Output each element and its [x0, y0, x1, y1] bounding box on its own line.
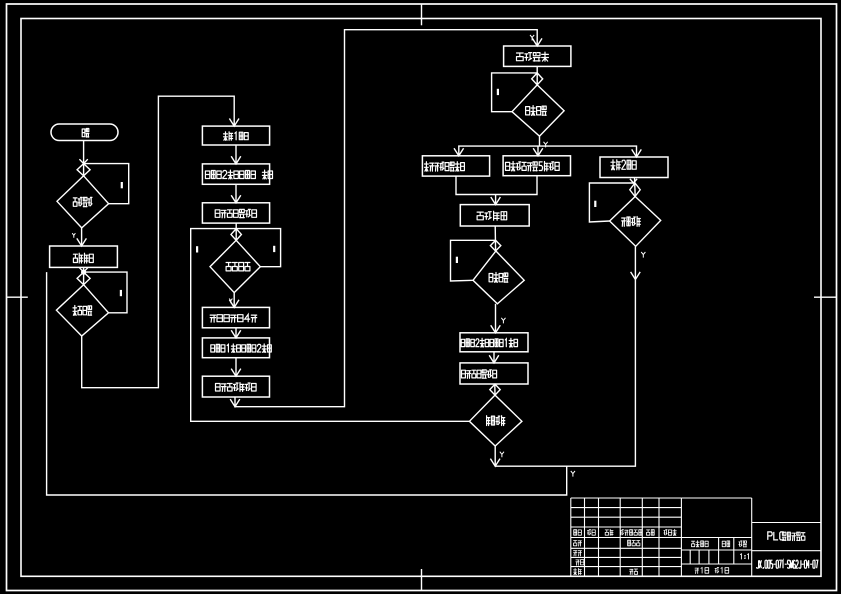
N loop wire of D1	[84, 164, 129, 204]
decision D6 循环停止	[469, 395, 522, 446]
arrowhead into box3	[231, 195, 241, 203]
decision D7 夹紧停止	[610, 197, 661, 247]
decision D3 延时到达	[210, 240, 260, 292]
process box 计数器计数4次	[202, 307, 269, 327]
wire box6 up to 触头下落	[235, 30, 537, 407]
process box 传送带开始转动	[202, 203, 269, 223]
process box 传送带开始转动 2	[460, 363, 528, 384]
arrowhead into D3	[231, 229, 241, 241]
arrowhead into 电磁铁头 box	[454, 148, 464, 156]
arrowhead into D2	[77, 272, 90, 285]
N loop wire of D2	[84, 272, 127, 313]
process box 触头下落	[504, 46, 571, 66]
wire to box5	[235, 328, 237, 338]
arrowhead into D1	[77, 164, 90, 176]
arrowhead at bottom junction	[490, 459, 500, 467]
label N of D1	[121, 182, 123, 188]
wire box3 to D3	[235, 223, 237, 240]
distributor wire	[459, 146, 637, 157]
process box 限位组件向下5秒转动	[503, 156, 570, 176]
label Y below D7	[641, 252, 645, 258]
wire to box2	[235, 145, 237, 164]
merge wires into 触头上升	[456, 176, 537, 195]
drawing number	[757, 560, 818, 568]
process box 传送带停止转动	[202, 376, 269, 397]
arrow junction above D1	[79, 159, 87, 163]
arrowhead into D5	[490, 240, 500, 251]
wire box14 to D6	[494, 384, 496, 395]
wire 触头上升 to D5	[494, 226, 496, 251]
label Y below D1	[72, 233, 75, 238]
arrowhead into 电机2启动	[632, 149, 642, 157]
arrowhead at D7 loop junction	[630, 179, 637, 183]
arrowhead into box13	[491, 325, 501, 333]
arrowhead into D4	[532, 73, 543, 85]
N loop wire of D5	[451, 240, 496, 281]
wire D1 to box 设定参数	[81, 228, 83, 246]
label N of D4	[497, 89, 499, 95]
sheet count 共1张 第1张	[695, 567, 729, 573]
wire D2 exit to middle column	[82, 96, 235, 388]
arrowhead into box6	[231, 369, 241, 377]
return wire to D2	[47, 272, 567, 495]
arrowhead into 限位组件 box	[533, 148, 543, 156]
label Y below D5	[501, 318, 505, 324]
wire oval to diamond D1	[83, 141, 85, 176]
arrow junction above D2	[79, 268, 87, 272]
title block grid	[571, 498, 821, 576]
arrowhead into D7	[630, 183, 640, 197]
decision D4 到位检测	[512, 85, 564, 136]
process box 电机2启动	[600, 157, 668, 178]
wire 电机2启动 to D7	[634, 177, 637, 197]
decision D2 位置检测	[56, 285, 108, 336]
label Y top	[530, 35, 534, 41]
wire 设定参数 to D2	[83, 267, 85, 284]
process box 传感器2闭合传感器3断开	[202, 164, 269, 184]
mid arrowhead on D7 exit wire	[631, 272, 641, 280]
label N right of D3	[273, 246, 275, 252]
arrowhead into box5	[231, 330, 241, 338]
wire D5 to box13	[495, 304, 497, 333]
title block row labels	[574, 541, 582, 547]
drawing title PLC程序流程图	[768, 532, 784, 540]
arrowhead into 设定参数	[77, 238, 87, 246]
process box 传感器2断开传感器1闭合	[460, 333, 528, 352]
arrowhead into 触头上升	[491, 197, 501, 205]
wire D6 bottom to junction	[494, 446, 496, 466]
label N left of D3	[196, 246, 198, 252]
title block header labels	[574, 530, 582, 536]
N loop enclosure of D3	[236, 229, 280, 267]
arrowhead into 触头下落	[532, 38, 542, 46]
decision D1 时间调整	[57, 176, 109, 228]
bottom merge wire	[495, 246, 635, 466]
label Y below D3	[229, 299, 232, 304]
stage mark cells	[692, 541, 709, 547]
process box 触头上升	[460, 205, 529, 226]
label Y below D6	[500, 452, 504, 458]
process box 传感器1闭合传感器2断开	[202, 338, 269, 358]
arrowhead below box6	[230, 399, 240, 407]
wire D4 to 3-way split	[539, 136, 541, 146]
arrowhead into 电机1启动	[229, 119, 239, 127]
process box 电机1启动	[202, 126, 269, 145]
arrowhead into D6	[490, 384, 500, 395]
arrowhead into box2	[231, 156, 241, 164]
arrowhead into box14	[489, 355, 499, 363]
process box 电磁铁头开始闭合	[422, 156, 489, 176]
label Y below D4	[544, 142, 548, 148]
label N of D7	[594, 201, 596, 207]
N loop wire of D7	[589, 183, 635, 222]
arrowhead into box4	[229, 300, 239, 308]
label Y at return junction	[571, 471, 575, 477]
junction dot	[81, 270, 86, 275]
label N of D5	[456, 257, 458, 263]
wire to box3	[235, 184, 237, 203]
wire 触头下落 to D4	[536, 66, 538, 85]
decision D5 到位检测	[473, 251, 524, 304]
wire to box6	[235, 358, 237, 377]
label N of D2	[120, 290, 122, 296]
start terminator oval 开始	[51, 124, 118, 141]
wire to box14	[493, 352, 495, 363]
wire D3 to box4	[233, 293, 235, 308]
scale value	[740, 554, 748, 560]
process box 设定参数	[50, 246, 118, 267]
N loop wire of D4	[492, 73, 538, 112]
